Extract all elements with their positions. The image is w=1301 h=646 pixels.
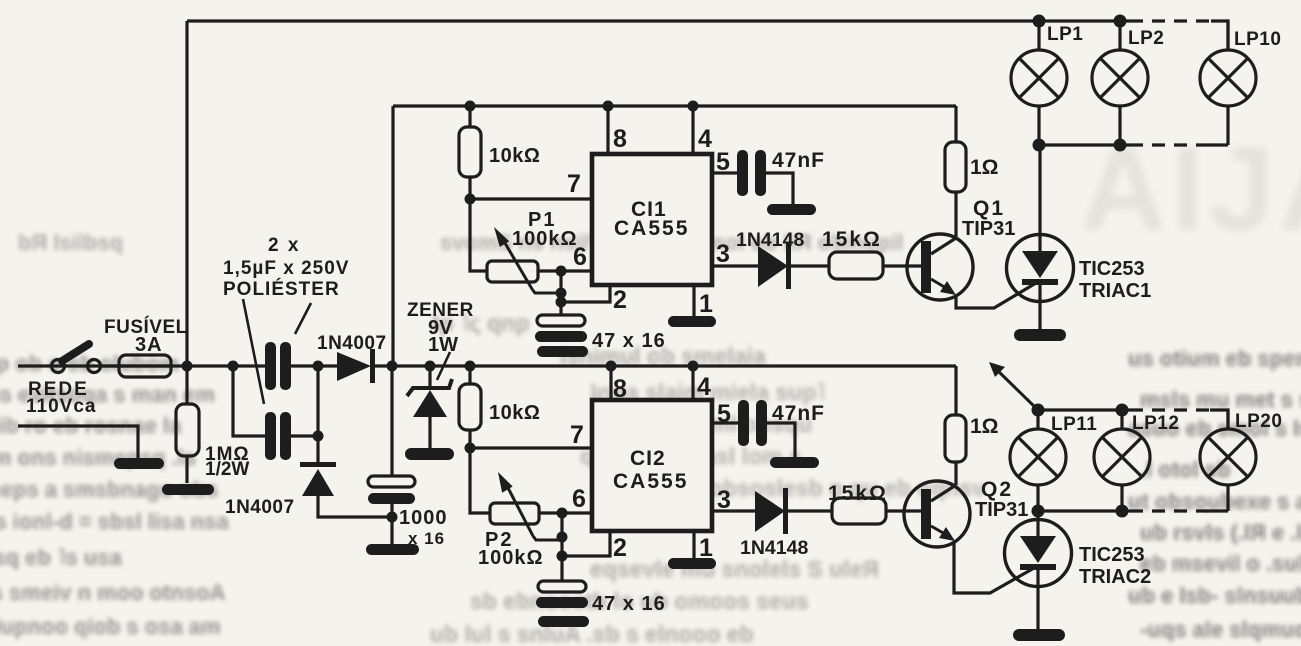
svg-text:eqsevle mu snolels S uleЯ: eqsevle mu snolels S uleЯ	[590, 556, 879, 582]
label 1000 x16	[399, 507, 448, 548]
wire lamp bottom rail top bank	[1039, 143, 1228, 146]
ground pin1 CI1	[668, 316, 716, 327]
wire pin5 CI2	[712, 421, 738, 424]
node P1 wiper join	[556, 288, 567, 299]
svg-text:10kΩ: 10kΩ	[489, 402, 540, 424]
svg-text:nsq eb ˥s usa: nsq eb ˥s usa	[0, 545, 122, 570]
wire pin3 CI1	[712, 264, 829, 267]
lamp LP10	[1200, 21, 1256, 145]
svg-text:us otium eb spemo s smetaa: us otium eb spemo s smetaa	[1128, 346, 1301, 371]
ground TRIAC2	[1013, 629, 1065, 641]
node fuse output	[182, 361, 193, 372]
svg-text:POLIÉSTER: POLIÉSTER	[223, 278, 340, 300]
label REDE 110Vca	[26, 379, 96, 417]
svg-text:1N4007: 1N4007	[317, 333, 387, 354]
node pin8 rail CI1	[603, 101, 614, 112]
svg-text:3: 3	[716, 240, 730, 268]
ground 1000uF	[366, 544, 419, 555]
svg-text:bЯ lsilbsq: bЯ lsilbsq	[18, 230, 123, 255]
wire pin8 CI1	[606, 106, 609, 154]
wire pin2 CI2	[562, 531, 610, 556]
wire pin2 CI1	[561, 285, 610, 302]
resistor 10k CI2	[459, 366, 481, 448]
op-amp timer U2 CA555 box	[592, 400, 712, 531]
node 10k bottom CI1	[465, 194, 476, 205]
node 10k top CI1	[465, 101, 476, 112]
wire 15k to Q2 base	[886, 509, 921, 512]
svg-text:CA555: CA555	[613, 470, 688, 493]
node LP1 bottom	[1033, 139, 1046, 152]
node zener	[425, 361, 436, 372]
wire mains to 1 ohm Q2	[954, 366, 957, 415]
svg-text:TRIAC2: TRIAC2	[1079, 566, 1151, 588]
svg-text:-uqs ale slqmuoT .sloq: -uqs ale slqmuoT .sloq	[1140, 617, 1301, 642]
node cap right	[313, 361, 324, 372]
node LP2 top	[1114, 15, 1127, 28]
svg-text:6: 6	[572, 485, 586, 513]
fuse F1	[52, 355, 171, 377]
svg-text:bom ons nismepsq .ls: bom ons nismepsq .ls	[0, 445, 196, 470]
pointer line to cap C1	[295, 303, 311, 334]
node 10k bottom CI2	[465, 443, 476, 454]
wire 15k to Q1 base	[883, 264, 921, 267]
resistor 10k CI1	[459, 106, 481, 199]
switch S1	[52, 344, 101, 373]
svg-text:2: 2	[613, 534, 627, 562]
left margin ghost paragraph	[0, 351, 229, 639]
wire pin8 CI2	[609, 366, 612, 400]
middle ghost paragraph behind CI2	[580, 379, 985, 529]
diode D2 1N4007 shunt	[300, 436, 392, 517]
potentiometer P2 100k	[490, 472, 562, 540]
capacitor 47x16 CI2 with ground	[536, 581, 589, 627]
capacitor 1000x16 electrolytic	[368, 366, 415, 544]
node 10k top CI2	[465, 361, 476, 372]
svg-text:1: 1	[699, 290, 713, 318]
label P2 100k	[478, 529, 544, 569]
svg-text:100kΩ: 100kΩ	[478, 547, 544, 569]
svg-text:110Vca: 110Vca	[26, 396, 96, 417]
svg-text:LP10: LP10	[1234, 29, 1281, 50]
svg-text:CA555: CA555	[614, 217, 689, 240]
svg-text:ub e lsb- slnsuub ael-enqei: ub e lsb- slnsuub ael-enqei	[1128, 583, 1301, 608]
svg-text:M s ionl-d = sbsl lisa nsa: M s ionl-d = sbsl lisa nsa	[0, 509, 229, 534]
wire pin5 CI1	[712, 171, 737, 174]
node P2 wiper join	[557, 532, 568, 543]
svg-text:4: 4	[698, 125, 712, 153]
svg-text:8: 8	[613, 125, 627, 153]
resistor 1 ohm Q2	[945, 415, 966, 485]
svg-text:1Ω: 1Ω	[970, 156, 999, 179]
ground TRIAC1	[1014, 329, 1066, 341]
svg-text:Q1: Q1	[973, 197, 1005, 220]
svg-text:15kΩ: 15kΩ	[828, 482, 888, 505]
wire mains line	[18, 364, 956, 367]
op-amp timer U1 CA555 box	[592, 154, 712, 285]
svg-text:CI2: CI2	[630, 447, 666, 470]
svg-text:1Ω: 1Ω	[970, 415, 999, 438]
right margin ghost paragraph	[1128, 346, 1301, 642]
wire pin1 CI1	[692, 285, 695, 316]
wire lamp bottom rail bottom bank	[1038, 509, 1228, 512]
wire left vertical from top rail to mains line	[185, 21, 188, 366]
svg-text:5: 5	[716, 148, 730, 176]
svg-text:4: 4	[697, 373, 711, 401]
wire cap2 branch	[233, 366, 318, 436]
svg-text:LP20: LP20	[1235, 411, 1282, 432]
middle caption ghost	[18, 230, 903, 255]
node P2 out	[557, 508, 568, 519]
node LP11 top	[1032, 404, 1045, 417]
svg-text:47nF: 47nF	[772, 149, 825, 172]
wire pin4 CI2	[691, 366, 694, 400]
capacitor 47nF CI1	[737, 150, 766, 196]
ground 1M ohm	[162, 484, 214, 495]
svg-text:15kΩ: 15kΩ	[822, 228, 882, 251]
label TIC253 TRIAC2	[1079, 544, 1151, 588]
wire 47nF CI1 to ground	[766, 173, 793, 204]
svg-text:eb msevil o .sul eb: eb msevil o .sul eb	[1140, 551, 1301, 576]
transistor Q1 TIP31	[907, 234, 1036, 308]
svg-text:LP2: LP2	[1128, 28, 1164, 49]
svg-text:8: 8	[613, 375, 627, 403]
node pin2 join CI1	[556, 297, 567, 308]
node LP12 bottom	[1116, 505, 1129, 518]
svg-text:1N4007: 1N4007	[225, 497, 295, 518]
svg-text:LP12: LP12	[1132, 413, 1179, 434]
diode 1N4148 CI2	[755, 488, 788, 534]
label Q1 TIP31	[962, 197, 1015, 240]
lamp LP2	[1092, 21, 1148, 145]
svg-text:47nF: 47nF	[772, 402, 825, 425]
wire CI2 left col to pot	[470, 448, 490, 513]
capacitor C2 1,5uF bottom	[265, 412, 291, 460]
capacitor C1 1,5uF top	[265, 342, 291, 390]
svg-text:47 x 16: 47 x 16	[592, 330, 666, 352]
svg-text:TIP31: TIP31	[962, 218, 1015, 240]
svg-text:ub rsvls (.lЯ e .lЯ) ansv: ub rsvls (.lЯ e .lЯ) ansv	[1140, 520, 1301, 545]
svg-text:Q2: Q2	[981, 478, 1013, 501]
svg-text:1N4148: 1N4148	[740, 537, 808, 559]
svg-text:LP11: LP11	[1051, 414, 1097, 435]
node pin4 rail CI1	[688, 101, 699, 112]
wire top AC rail	[187, 21, 1228, 50]
ground pin1 CI2	[668, 558, 716, 569]
svg-text:1W: 1W	[428, 334, 458, 356]
wire 47nF CI2 to ground	[767, 423, 795, 457]
svg-text:TIP31: TIP31	[975, 499, 1028, 521]
wire CI1 Vcc rail	[393, 104, 956, 107]
wire pin7 CI1	[470, 197, 590, 200]
transistor Q2 TIP31	[904, 481, 1034, 593]
resistor 15k CI1	[829, 252, 883, 279]
svg-text:1: 1	[699, 534, 713, 562]
svg-text:aelupnoo qiob s osa am: aelupnoo qiob s osa am	[0, 614, 221, 639]
node LP2 bottom	[1114, 139, 1127, 152]
node LP12 top	[1116, 404, 1129, 417]
ground lower mains	[114, 458, 164, 469]
node pin2 join CI2	[557, 551, 568, 562]
wire pot P1 to pin6	[538, 269, 590, 272]
wire pin3 CI2	[712, 509, 832, 512]
bottom middle ghost lines	[430, 556, 879, 646]
diode 1N4148 CI1	[758, 243, 791, 289]
svg-text:3A: 3A	[135, 334, 163, 356]
resistor 1 ohm Q1	[945, 106, 966, 237]
svg-text:47 x 16: 47 x 16	[592, 593, 666, 615]
label CI1 CA555	[614, 198, 689, 240]
ground 47nF CI1	[767, 204, 816, 215]
node cap2 right	[313, 431, 324, 442]
node diode2 to cap	[387, 512, 398, 523]
zener diode 9V	[407, 366, 452, 448]
svg-text:6: 6	[573, 243, 587, 271]
lamp LP20	[1200, 410, 1256, 511]
svg-text:1N4148: 1N4148	[736, 229, 804, 251]
svg-text:7: 7	[567, 170, 581, 198]
label 2x 1,5uF x 250V POLIESTER	[223, 235, 349, 300]
triac TRIAC1 TIC253	[1007, 145, 1074, 329]
svg-text:7: 7	[570, 421, 584, 449]
svg-text:LP1: LP1	[1047, 24, 1083, 45]
node pin4 rail CI2	[688, 361, 699, 372]
wire lamp top rail bottom bank	[1038, 410, 1228, 429]
wire pin7 CI2	[470, 446, 590, 449]
wire lower mains lead	[18, 426, 138, 458]
svg-text:10kΩ: 10kΩ	[489, 145, 540, 167]
lamp LP11	[1010, 410, 1066, 511]
triac TRIAC2 TIC253	[1005, 511, 1072, 629]
svg-text:1/2W: 1/2W	[205, 459, 249, 480]
wire pin4 CI1	[691, 106, 694, 154]
svg-text:1000: 1000	[399, 507, 448, 529]
wire column to 47x16 CI1	[559, 271, 562, 315]
label Q2 TIP31	[975, 478, 1028, 521]
svg-text:ub lul s snluA .sb s elnooo: ub lul s snluA .sb s elnooo eb	[430, 621, 754, 646]
diode D1 1N4007 series	[337, 349, 375, 383]
resistor 15k CI2	[832, 498, 886, 524]
node LP1 top	[1033, 15, 1046, 28]
label CI2 CA555	[613, 447, 688, 493]
resistor 1M ohm	[176, 366, 199, 483]
svg-text:3: 3	[717, 486, 731, 514]
node pin8 rail CI2	[606, 361, 617, 372]
svg-text:TIC253: TIC253	[1079, 258, 1145, 280]
node cap branch left	[228, 361, 239, 372]
lamp LP12	[1094, 410, 1150, 511]
svg-text:AIJA: AIJA	[1080, 122, 1301, 256]
wire column to 47x16 CI2	[560, 513, 563, 581]
label 1M ohm 1/2W	[205, 444, 250, 480]
label P1 100k	[512, 209, 578, 250]
svg-text:msls mu met s sl etsd o: msls mu met s sl etsd o	[1140, 387, 1301, 412]
pointer line zener	[437, 352, 450, 380]
svg-text:1,5µF x 250V: 1,5µF x 250V	[223, 258, 349, 279]
svg-text:2: 2	[613, 286, 627, 314]
ground zener	[405, 448, 454, 460]
svg-text:TIC253: TIC253	[1079, 544, 1145, 566]
arrow to AC rail	[989, 362, 1038, 410]
wire pot P2 to pin6	[539, 511, 590, 514]
pointer line to cap C2	[243, 299, 264, 404]
middle ghost lines above mains	[432, 310, 766, 369]
node LP11 bottom	[1032, 505, 1045, 518]
lamp LP1	[1011, 21, 1067, 145]
wire CI1 left rail vertical	[391, 106, 394, 366]
svg-text:x 16: x 16	[408, 529, 445, 548]
wire pin1 CI2	[692, 531, 695, 558]
capacitor 47nF CI2	[738, 400, 767, 446]
wire CI1 left col to pot	[470, 199, 487, 271]
label ZENER 9V 1W	[407, 300, 474, 356]
svg-text:2 x: 2 x	[268, 235, 300, 256]
potentiometer P1 100k	[487, 227, 561, 293]
svg-text:sos smeiv n moo otnsoA: sos smeiv n moo otnsoA	[0, 580, 225, 605]
capacitor 47x16 CI1 with ground	[535, 315, 588, 357]
node P1 out	[556, 266, 567, 277]
node mains x 1000uF column	[387, 361, 398, 372]
ground 47nF CI2	[770, 457, 819, 468]
svg-text:TRIAC1: TRIAC1	[1079, 280, 1151, 302]
svg-text:100kΩ: 100kΩ	[512, 228, 578, 250]
svg-text:5: 5	[717, 400, 731, 428]
label FUSIVEL 3A	[104, 316, 188, 356]
label TIC253 TRIAC1	[1079, 258, 1151, 302]
